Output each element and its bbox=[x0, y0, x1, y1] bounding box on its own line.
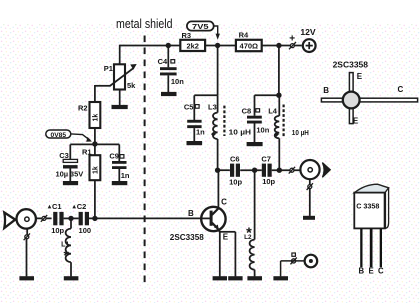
svg-text:L3: L3 bbox=[208, 103, 217, 112]
svg-text:P1: P1 bbox=[104, 64, 113, 73]
junction L4 top bbox=[276, 93, 281, 98]
svg-text:C2: C2 bbox=[77, 202, 87, 211]
connector input jack bbox=[17, 209, 36, 228]
junction L4 bottom bbox=[277, 168, 282, 173]
svg-text:2SC3358: 2SC3358 bbox=[333, 59, 369, 69]
svg-text:5k: 5k bbox=[127, 81, 136, 90]
svg-text:C8: C8 bbox=[242, 106, 252, 115]
resistor R4 bbox=[236, 31, 262, 52]
wire input jack ground drop bbox=[26, 228, 28, 234]
junction bias node bbox=[92, 141, 97, 146]
wire R2 to node bbox=[94, 128, 96, 155]
capacitor C1 bbox=[48, 202, 65, 235]
wire emitter grounds bbox=[219, 231, 221, 276]
transistor T1 2SC3358 bbox=[170, 197, 230, 242]
svg-text:2SC3358: 2SC3358 bbox=[170, 232, 204, 242]
svg-text:C: C bbox=[398, 85, 404, 94]
wire 7V5 node down bbox=[217, 46, 219, 96]
wire wiper to R2 bbox=[94, 85, 96, 102]
capacitor C2 bbox=[72, 202, 91, 235]
junction collector bbox=[215, 168, 220, 173]
svg-text:B: B bbox=[188, 209, 194, 218]
svg-text:470Ω: 470Ω bbox=[240, 41, 259, 50]
connector 12V plug bbox=[289, 34, 296, 50]
connector bottom right plug bbox=[290, 253, 296, 264]
svg-text:10p: 10p bbox=[51, 226, 64, 235]
wire P1 to ground bbox=[119, 90, 121, 106]
svg-text:10µ: 10µ bbox=[55, 169, 68, 178]
resistor R2 bbox=[78, 102, 100, 128]
svg-text:R4: R4 bbox=[239, 31, 249, 40]
svg-text:B: B bbox=[358, 267, 364, 276]
wire C1 to C2 bbox=[64, 217, 79, 219]
capacitor C8 bbox=[242, 106, 270, 142]
wire base line bbox=[89, 217, 202, 219]
svg-text:C6: C6 bbox=[230, 155, 240, 164]
svg-text:10 µH: 10 µH bbox=[229, 127, 251, 136]
wire R1 to base line bbox=[94, 180, 96, 218]
svg-text:1n: 1n bbox=[196, 127, 205, 136]
wire bias node horizontal bbox=[70, 143, 119, 145]
svg-text:R2: R2 bbox=[78, 104, 88, 113]
wire tank top to C5 bbox=[194, 94, 217, 96]
svg-text:7V5: 7V5 bbox=[192, 22, 209, 31]
wire input jack to C1 bbox=[36, 217, 52, 219]
resistor R3 bbox=[180, 31, 205, 51]
svg-text:E: E bbox=[357, 72, 363, 81]
wire output line bbox=[218, 169, 230, 171]
wire input ground bbox=[26, 239, 28, 276]
ground under C4 bbox=[161, 92, 177, 96]
ground under P1 bbox=[112, 105, 128, 109]
svg-text:1n: 1n bbox=[121, 171, 130, 180]
ground under output jack bbox=[303, 216, 315, 220]
svg-text:1k: 1k bbox=[92, 114, 99, 122]
junction rail-C4 bbox=[166, 43, 171, 48]
capacitor C5 bbox=[184, 103, 205, 142]
ground input bbox=[19, 276, 34, 280]
svg-text:C5: C5 bbox=[184, 103, 194, 112]
capacitor C3 bbox=[55, 144, 83, 181]
svg-text:100: 100 bbox=[79, 226, 92, 235]
capacitor C7 bbox=[261, 155, 275, 187]
capacitor C6 bbox=[229, 155, 242, 187]
inductor L2 bbox=[244, 170, 254, 276]
wire output jack ground drop bbox=[309, 179, 311, 216]
node 0V85 label bbox=[46, 130, 92, 142]
svg-text:10n: 10n bbox=[171, 77, 184, 86]
svg-text:E: E bbox=[353, 117, 359, 126]
wire C6 to C7 bbox=[240, 169, 262, 171]
plug break input bbox=[41, 215, 47, 222]
resistor R1 bbox=[82, 147, 100, 180]
ground under L2 bbox=[247, 276, 262, 280]
svg-text:10p: 10p bbox=[229, 177, 242, 186]
svg-text:C1: C1 bbox=[52, 202, 62, 211]
wire rail corner down to P1 bbox=[119, 45, 121, 65]
inductor L4 bbox=[268, 95, 309, 170]
ground under C5 bbox=[187, 141, 203, 145]
junction rail R3/R4 7V5 bbox=[215, 43, 220, 48]
connector input plug arrow bbox=[4, 213, 15, 229]
svg-text:*: * bbox=[246, 226, 252, 242]
svg-text:1k: 1k bbox=[92, 166, 99, 174]
ground under L1 bbox=[64, 276, 79, 280]
node 7V5 label bbox=[187, 21, 220, 39]
capacitor C4 bbox=[158, 46, 185, 93]
wire 12V branch down bbox=[278, 46, 280, 96]
connector bottom right jack bbox=[305, 255, 318, 268]
ground bottom connector bbox=[273, 276, 288, 280]
svg-text:35V: 35V bbox=[70, 169, 83, 178]
svg-text:C: C bbox=[378, 267, 384, 276]
package drawing C3358 bbox=[354, 184, 388, 275]
plug break output bbox=[289, 167, 295, 174]
svg-text:10n: 10n bbox=[256, 125, 269, 134]
ground emitter 2 bbox=[228, 276, 242, 280]
ground under C3 bbox=[63, 181, 78, 185]
svg-text:10 µH: 10 µH bbox=[292, 128, 309, 137]
potentiometer P1 bbox=[95, 64, 137, 90]
connector output jack bbox=[300, 160, 319, 179]
junction R1/base bbox=[92, 216, 97, 221]
inductor L1 bbox=[61, 218, 71, 276]
ground emitter 1 bbox=[213, 276, 227, 280]
junction C1/C2/L1 bbox=[68, 216, 73, 221]
svg-text:metal shield: metal shield bbox=[116, 17, 173, 31]
junction rail 12V branch bbox=[276, 43, 281, 48]
pinout diagram 2SC3358 bbox=[321, 59, 417, 125]
ground under C9 bbox=[112, 181, 128, 185]
svg-text:E: E bbox=[223, 232, 229, 241]
plug break input ground bbox=[24, 233, 30, 240]
svg-text:C9: C9 bbox=[109, 152, 119, 161]
junction C6/C7/L2 bbox=[252, 168, 257, 173]
plug break output ground bbox=[307, 183, 313, 190]
svg-text:B: B bbox=[323, 86, 329, 95]
wire to C8 bbox=[255, 94, 279, 96]
svg-text:C4: C4 bbox=[158, 57, 168, 66]
ground under C8 bbox=[247, 142, 263, 146]
wire collector up bbox=[217, 170, 219, 208]
connector 12V jack bbox=[300, 28, 316, 52]
svg-text:L4: L4 bbox=[268, 107, 278, 116]
metal shield dashed line bbox=[144, 36, 146, 283]
inductor L3 bbox=[208, 95, 251, 170]
svg-text:10p: 10p bbox=[262, 177, 275, 186]
connector output plug arrow bbox=[322, 163, 330, 178]
capacitor C9 bbox=[109, 144, 129, 181]
svg-text:E: E bbox=[368, 267, 373, 276]
svg-text:12V: 12V bbox=[300, 28, 316, 37]
svg-text:C: C bbox=[221, 197, 227, 206]
wire bottom connector bbox=[281, 260, 305, 262]
svg-text:C 3358: C 3358 bbox=[356, 202, 379, 211]
svg-text:C7: C7 bbox=[261, 155, 271, 164]
svg-text:2k2: 2k2 bbox=[186, 41, 199, 50]
wire top supply rail bbox=[120, 45, 302, 47]
wire C7 to output jack bbox=[272, 169, 301, 171]
svg-text:0V85: 0V85 bbox=[51, 132, 67, 139]
